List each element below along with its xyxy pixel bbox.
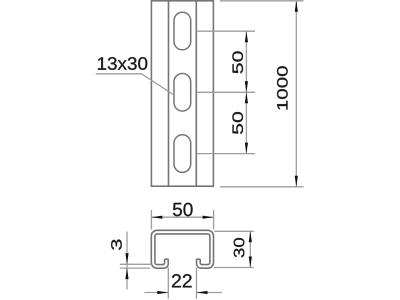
slot 2 <box>174 74 191 112</box>
arrow up 30 <box>249 231 252 242</box>
dim text 30 <box>234 238 245 257</box>
arrow up-pointing 3 lower <box>125 268 128 279</box>
slot 3 <box>174 135 191 173</box>
extension line 22 left <box>167 268 169 299</box>
arrow left cs-50 <box>151 216 162 219</box>
arrow up at y92.3 <box>245 92 248 103</box>
extension line bottom for 1000 <box>220 186 304 188</box>
label 13x30 <box>98 57 147 70</box>
slot 1 <box>174 12 191 50</box>
dim text 22 <box>172 274 192 287</box>
leader line for slot label <box>96 74 174 95</box>
extension line slot 1 center <box>197 30 255 32</box>
arrow down at 1000 bottom <box>295 176 298 187</box>
extension line 22 right <box>196 268 198 299</box>
extension line cs-50 left <box>150 210 152 230</box>
dimension line 22 left tail <box>145 292 169 294</box>
extension line slot 3 center <box>197 153 255 155</box>
dimension line 3 <box>126 232 128 290</box>
dimension line 50 pitch <box>245 31 247 153</box>
arrow right-pointing 22 left <box>157 291 168 294</box>
rail front view outline <box>151 1 213 186</box>
dim text 50 upper <box>232 51 243 73</box>
dimension line 22 right tail <box>197 292 223 294</box>
dimension line cs-50 <box>151 216 213 218</box>
dim text 50 width <box>173 203 193 216</box>
extension line 3 upper <box>120 263 152 265</box>
extension line 3 lower <box>120 267 150 269</box>
dim text 1000 <box>277 66 288 109</box>
dim text 3 <box>111 239 122 249</box>
extension line cs-50 right <box>213 210 215 230</box>
extension line 30 bottom <box>214 267 254 269</box>
dimension line 30 <box>249 231 251 267</box>
dimension line 1000 <box>295 1 297 187</box>
arrow down-pointing 3 upper <box>125 253 128 264</box>
profile cross-section <box>151 230 213 268</box>
arrow down at y153.6 <box>245 143 248 154</box>
arrow up at y31 <box>245 31 248 42</box>
arrow left-pointing 22 right <box>197 291 208 294</box>
arrow up at 1000 top <box>295 1 298 12</box>
arrow right cs-50 <box>203 216 214 219</box>
arrow down at y92.3 <box>245 81 248 92</box>
dim text 50 lower <box>232 112 243 134</box>
extension line slot 2 center <box>197 91 255 93</box>
extension line top for 1000 <box>220 0 304 2</box>
arrow down 30 <box>249 257 252 268</box>
extension line 30 top <box>214 230 254 232</box>
